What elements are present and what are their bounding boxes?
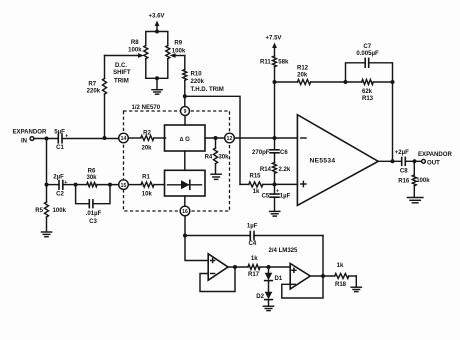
pin 15 bbox=[119, 180, 129, 190]
svg-text:C2: C2 bbox=[56, 192, 64, 198]
diode D2 bbox=[256, 292, 272, 300]
svg-text:C6: C6 bbox=[280, 150, 288, 156]
resistor R6 30k bbox=[76, 169, 119, 187]
node: R4 junction bbox=[214, 136, 218, 140]
svg-text:R16: R16 bbox=[398, 178, 410, 184]
svg-text:5µF: 5µF bbox=[54, 130, 65, 136]
node: output/feedback junction bbox=[391, 159, 395, 163]
wire junction to op amp plus input bbox=[275, 183, 298, 185]
svg-text:1µF: 1µF bbox=[247, 223, 258, 229]
potentiometer R9 100k bbox=[166, 41, 186, 59]
svg-text:EXPANDOR: EXPANDOR bbox=[13, 130, 47, 136]
wire op amp 2 output bbox=[310, 275, 334, 277]
svg-text:R12: R12 bbox=[297, 65, 309, 71]
node: R7 bottom junction bbox=[103, 136, 107, 140]
svg-text:220k: 220k bbox=[191, 79, 205, 85]
svg-text:30k: 30k bbox=[86, 175, 97, 181]
resistor R12 20k bbox=[275, 65, 346, 84]
output terminal EXPANDOR OUT bbox=[418, 152, 452, 167]
delta-G cell box bbox=[165, 125, 206, 151]
svg-text:C4: C4 bbox=[249, 241, 257, 247]
node: pot loop top junction bbox=[155, 30, 159, 34]
capacitor C7 0.005uF bbox=[346, 44, 393, 82]
wire D1 to D2 bbox=[268, 281, 270, 292]
resistor R2 20k bbox=[128, 130, 165, 151]
wire junction A down to junction B bbox=[274, 82, 276, 138]
svg-text:R8: R8 bbox=[131, 40, 139, 46]
resistor R4 30k bbox=[205, 138, 230, 174]
svg-text:+: + bbox=[276, 188, 279, 194]
svg-text:+3.6V: +3.6V bbox=[149, 14, 165, 20]
ground C5 bbox=[270, 211, 280, 216]
svg-text:D1: D1 bbox=[275, 276, 283, 282]
capacitor C8 2uF bbox=[395, 150, 409, 174]
svg-text:270pF: 270pF bbox=[252, 150, 270, 156]
supply +3.6V bbox=[149, 14, 165, 32]
svg-text:R17: R17 bbox=[248, 272, 260, 278]
resistor R15 1k bbox=[240, 174, 275, 196]
capacitor C6 270pF bbox=[252, 138, 288, 156]
wire pin 16 down to C4 node bbox=[184, 216, 186, 236]
svg-text:1/2 NE570: 1/2 NE570 bbox=[132, 105, 161, 111]
wire feedback down to output bbox=[392, 82, 394, 161]
svg-text:1k: 1k bbox=[253, 189, 260, 195]
input terminal EXPANDOR IN bbox=[13, 130, 47, 145]
svg-text:R13: R13 bbox=[362, 96, 374, 102]
wire op amp 2 feedback loop bbox=[282, 276, 323, 298]
supply +7.5V bbox=[266, 36, 282, 57]
node: R6/pin15 junction bbox=[108, 183, 112, 187]
wire junction to op amp 2 plus input bbox=[269, 266, 291, 268]
resistor R1 10k bbox=[128, 175, 164, 198]
svg-text:20k: 20k bbox=[297, 73, 308, 79]
node: R10 output junction bbox=[183, 94, 187, 98]
svg-text:NE5534: NE5534 bbox=[310, 158, 336, 165]
wire delta-G output to pin 12 bbox=[205, 137, 225, 139]
wire C4 node down to op amp 1 bbox=[185, 236, 208, 261]
pin 9 bbox=[181, 107, 190, 116]
NE570 dashed block bbox=[124, 111, 230, 211]
node: output terminal junction bbox=[413, 159, 417, 163]
svg-text:SHIFT: SHIFT bbox=[113, 70, 131, 76]
svg-text:C1: C1 bbox=[56, 145, 64, 151]
svg-text:1k: 1k bbox=[251, 256, 258, 262]
svg-text:EXPANDOR: EXPANDOR bbox=[418, 152, 452, 158]
resistor R16 100k bbox=[398, 161, 430, 197]
svg-text:1µF: 1µF bbox=[280, 194, 291, 200]
node: C4 junction bbox=[183, 234, 187, 238]
svg-text:D.C.: D.C. bbox=[115, 63, 127, 69]
wire C1 to pin 14 bbox=[62, 138, 119, 140]
resistor R18 1k bbox=[335, 263, 357, 288]
resistor R7 220k bbox=[87, 56, 107, 139]
svg-text:1k: 1k bbox=[337, 263, 344, 269]
wire input node down bbox=[46, 139, 48, 185]
wire pot loop frame bbox=[146, 32, 168, 79]
svg-text:R15: R15 bbox=[249, 174, 261, 180]
svg-text:R9: R9 bbox=[174, 41, 182, 47]
svg-text:∆ G: ∆ G bbox=[180, 136, 190, 143]
capacitor C3 .01uF parallel loop bbox=[76, 185, 110, 225]
wire junction down to pin 9 bbox=[184, 96, 186, 106]
svg-text:D2: D2 bbox=[256, 294, 264, 300]
diode D inside cell bbox=[181, 180, 190, 189]
wire C4 right down to buffer output bbox=[322, 236, 324, 277]
wire diode cell to pin 16 bbox=[184, 196, 186, 206]
wire input to C1 bbox=[34, 138, 58, 140]
ground D2 bbox=[263, 300, 273, 311]
svg-text:100k: 100k bbox=[53, 208, 67, 214]
svg-text:100k: 100k bbox=[416, 178, 430, 184]
svg-text:C3: C3 bbox=[89, 219, 97, 225]
diode cell box bbox=[165, 170, 206, 196]
svg-text:2µF: 2µF bbox=[53, 174, 64, 180]
wire delta-G to diode cell bbox=[184, 151, 186, 170]
svg-text:2.2k: 2.2k bbox=[279, 167, 291, 173]
svg-text:R6: R6 bbox=[88, 169, 96, 175]
svg-text:100k: 100k bbox=[128, 48, 142, 54]
svg-text:16: 16 bbox=[182, 209, 188, 215]
node: R11/R12 junction A bbox=[273, 80, 277, 84]
svg-text:R4: R4 bbox=[205, 155, 213, 161]
svg-text:14: 14 bbox=[121, 136, 127, 142]
ground pot loop bbox=[152, 78, 162, 94]
op-amp U2B LM325 bbox=[290, 264, 310, 290]
svg-text:T.H.D. TRIM: T.H.D. TRIM bbox=[191, 87, 224, 93]
svg-text:TRIM: TRIM bbox=[114, 78, 129, 84]
node: lower input junction bbox=[45, 183, 49, 187]
svg-text:62k: 62k bbox=[362, 89, 373, 95]
ground R5 bbox=[41, 232, 51, 237]
wire R8 wiper arm to R7 bbox=[105, 53, 145, 58]
svg-text:R2: R2 bbox=[143, 130, 151, 136]
svg-text:20k: 20k bbox=[141, 145, 152, 151]
wire C8 to output terminal bbox=[405, 160, 421, 162]
resistor R5 100k bbox=[35, 185, 66, 232]
ground R18 bbox=[351, 276, 361, 292]
node: diode clamp junction bbox=[267, 265, 271, 269]
node: pot loop bottom junction bbox=[155, 76, 159, 80]
node: R13/C7 right junction bbox=[391, 80, 395, 84]
op-amp U2A buffer bbox=[208, 254, 228, 280]
svg-text:2/4 LM325: 2/4 LM325 bbox=[269, 248, 299, 254]
pin 16 bbox=[180, 206, 190, 216]
svg-text:R10: R10 bbox=[191, 72, 203, 78]
op-amp NE5534 bbox=[297, 115, 378, 206]
pin 14 bbox=[119, 133, 129, 143]
svg-text:+7.5V: +7.5V bbox=[266, 36, 282, 42]
svg-text:R7: R7 bbox=[88, 82, 96, 88]
node: plus input junction bbox=[273, 182, 277, 186]
potentiometer R8 100k bbox=[128, 40, 148, 59]
resistor R17 1k bbox=[248, 256, 269, 278]
resistor R13 62k bbox=[346, 80, 393, 102]
resistor R10 220k T.H.D. TRIM bbox=[183, 56, 224, 97]
svg-text:IN: IN bbox=[21, 138, 27, 144]
node: C2/R6 junction bbox=[74, 183, 78, 187]
capacitor C1 5uF bbox=[54, 130, 68, 152]
svg-text:R1: R1 bbox=[142, 175, 150, 181]
label D.C. SHIFT TRIM bbox=[113, 63, 131, 85]
wire R9 wiper arm to R10 bbox=[170, 53, 185, 58]
capacitor C4 1uF bbox=[185, 223, 323, 247]
svg-text:R5: R5 bbox=[35, 208, 43, 214]
node: op amp 2 output junction bbox=[321, 274, 325, 278]
svg-text:15: 15 bbox=[121, 183, 127, 189]
svg-text:10k: 10k bbox=[142, 191, 153, 197]
node: R13/C7 left junction bbox=[344, 80, 348, 84]
ground R16 bbox=[407, 198, 423, 203]
svg-text:58k: 58k bbox=[278, 59, 289, 65]
diode D1 bbox=[265, 267, 283, 282]
wire pin9 to delta-G bbox=[184, 116, 186, 126]
wire op amp 1 feedback loop bbox=[200, 267, 235, 292]
svg-text:C5: C5 bbox=[262, 194, 270, 200]
svg-text:12: 12 bbox=[227, 136, 233, 142]
node: op amp 1 output junction bbox=[233, 265, 237, 269]
svg-text:R18: R18 bbox=[335, 282, 347, 288]
svg-text:30k: 30k bbox=[218, 154, 229, 160]
resistor R11 58k bbox=[260, 56, 289, 82]
wire op amp output bbox=[378, 160, 402, 162]
wire op amp 1 output bbox=[228, 266, 248, 268]
capacitor C2 2uF bbox=[47, 174, 76, 197]
pin 12 bbox=[225, 133, 235, 143]
svg-text:+: + bbox=[64, 180, 67, 186]
svg-text:220k: 220k bbox=[87, 89, 101, 95]
svg-text:9: 9 bbox=[184, 109, 187, 115]
svg-text:OUT: OUT bbox=[427, 161, 440, 167]
ground R4 bbox=[211, 174, 221, 179]
svg-text:R11: R11 bbox=[260, 59, 271, 65]
svg-text:.01µF: .01µF bbox=[86, 211, 102, 217]
svg-text:0.005µF: 0.005µF bbox=[356, 51, 379, 57]
svg-text:+2µF: +2µF bbox=[395, 150, 409, 156]
svg-text:C7: C7 bbox=[363, 44, 371, 50]
node: input junction bbox=[45, 137, 49, 141]
wire R10 junction to THD feed line bbox=[185, 96, 240, 184]
svg-text:R14: R14 bbox=[260, 167, 272, 173]
node: feedback bias junction B bbox=[273, 136, 277, 140]
capacitor C5 1uF bbox=[262, 184, 291, 211]
wire pin 12 to op amp minus input bbox=[234, 137, 297, 139]
resistor R14 2.2k bbox=[260, 153, 291, 185]
svg-text:C8: C8 bbox=[400, 169, 408, 175]
